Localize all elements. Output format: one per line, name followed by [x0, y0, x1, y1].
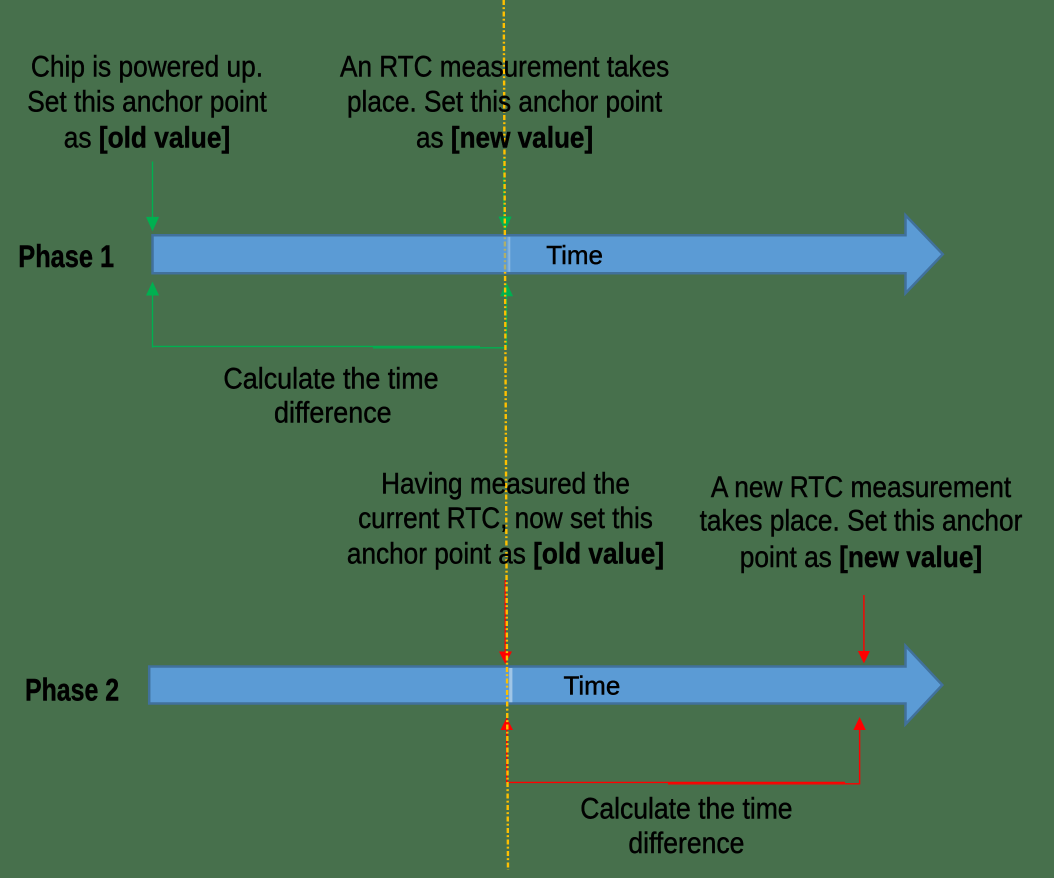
svg-text:Set this anchor point: Set this anchor point	[27, 85, 267, 118]
svg-text:A new RTC measurement: A new RTC measurement	[711, 471, 1011, 504]
svg-text:difference: difference	[274, 395, 392, 428]
red bracket up-arrow mid (phase 2)	[501, 718, 514, 784]
green anchor arrow down-mid (new value, phase 1)	[499, 158, 512, 231]
text block: chip powered up (phase 1 old value)	[27, 50, 267, 154]
svg-text:place. Set this anchor point: place. Set this anchor point	[347, 85, 662, 118]
svg-text:current RTC, now set this: current RTC, now set this	[358, 502, 653, 535]
red bracket horizontal wire overlap (phase 2)	[668, 783, 860, 785]
svg-text:as [old value]: as [old value]	[64, 121, 230, 154]
text block: RTC measurement (phase 1 new value)	[340, 50, 669, 154]
timeline arrow Phase 1 (blue block arrow)	[153, 215, 943, 293]
red anchor arrow down-mid (old value, phase 2)	[499, 580, 512, 664]
svg-text:Time: Time	[563, 671, 620, 701]
text: calculate time difference (phase 2)	[580, 792, 792, 859]
green bracket up-arrow left (phase 1)	[146, 282, 159, 348]
svg-text:takes place. Set this anchor: takes place. Set this anchor	[700, 504, 1023, 537]
yellow dash-dot reference line	[504, 0, 508, 870]
svg-text:as [new value]: as [new value]	[416, 121, 593, 154]
svg-text:Chip is powered up.: Chip is powered up.	[31, 50, 263, 83]
svg-text:Calculate the time: Calculate the time	[580, 792, 792, 825]
fade of reference line over bar 1	[503, 237, 509, 273]
svg-text:difference: difference	[628, 827, 744, 860]
svg-text:anchor point as [old value]: anchor point as [old value]	[347, 537, 664, 570]
faint white connector band on bar 1	[507, 237, 510, 272]
text block: having measured (phase 2 old value)	[347, 467, 664, 570]
svg-text:Phase 2: Phase 2	[25, 673, 119, 709]
svg-text:An RTC measurement takes: An RTC measurement takes	[340, 50, 669, 83]
red bracket horizontal wire (phase 2)	[507, 781, 845, 783]
red bracket up-arrow right (phase 2)	[853, 717, 865, 785]
green bracket up-arrow mid (phase 1)	[500, 283, 513, 348]
faint white connector band on bar 2	[509, 668, 512, 702]
green anchor arrow down-left (old value, phase 1)	[146, 162, 159, 232]
svg-text:Having measured the: Having measured the	[381, 467, 630, 500]
svg-text:point as [new value]: point as [new value]	[740, 541, 982, 574]
green bracket horizontal wire (phase 1)	[153, 345, 481, 347]
svg-text:Time: Time	[546, 240, 603, 270]
text block: new RTC measurement (phase 2 new value)	[700, 471, 1023, 574]
text: calculate time difference (phase 1)	[223, 361, 438, 429]
green bracket horizontal wire overlap (phase 1)	[373, 347, 507, 349]
svg-text:Phase 1: Phase 1	[18, 239, 114, 274]
red anchor arrow down-right (new value, phase 2)	[858, 595, 870, 664]
timeline arrow Phase 2 (blue block arrow)	[149, 646, 942, 724]
svg-text:Calculate the time: Calculate the time	[223, 361, 438, 394]
